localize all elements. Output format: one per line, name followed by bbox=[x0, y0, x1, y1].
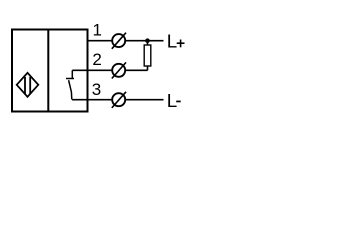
screw terminal 3 bbox=[112, 92, 126, 108]
switch contact tick bar bbox=[66, 78, 74, 80]
svg-text:L: L bbox=[167, 31, 177, 52]
node L+ label bbox=[167, 31, 185, 52]
svg-text:L: L bbox=[167, 90, 177, 111]
sensor body box bbox=[12, 30, 88, 112]
diamond inner line right bbox=[29, 77, 31, 94]
proximity sensor diamond symbol bbox=[17, 73, 39, 97]
wire pin3 to L- bbox=[72, 99, 164, 101]
sensor body divider bbox=[47, 30, 49, 112]
screw terminal 1 bbox=[112, 33, 126, 49]
svg-text:3: 3 bbox=[92, 80, 101, 99]
load resistor stub top bbox=[147, 41, 149, 45]
load resistor bbox=[144, 45, 151, 66]
wire pin1 to L+ bbox=[89, 40, 164, 42]
screw terminal 2 bbox=[112, 62, 126, 78]
diamond inner line left bbox=[24, 77, 26, 94]
pin label 3 bbox=[92, 80, 101, 99]
wire pin2 bbox=[72, 69, 147, 71]
load resistor stub bottom bbox=[147, 66, 149, 70]
junction dot on L+ wire bbox=[145, 38, 150, 43]
pin label 2 bbox=[92, 50, 101, 69]
pin label 1 bbox=[92, 21, 101, 40]
switch contact vertical stub from pin2 bbox=[71, 70, 73, 78]
switch contact blade bbox=[69, 80, 72, 99]
node L- label bbox=[167, 90, 181, 111]
svg-text:1: 1 bbox=[92, 21, 101, 40]
svg-text:2: 2 bbox=[92, 50, 101, 69]
